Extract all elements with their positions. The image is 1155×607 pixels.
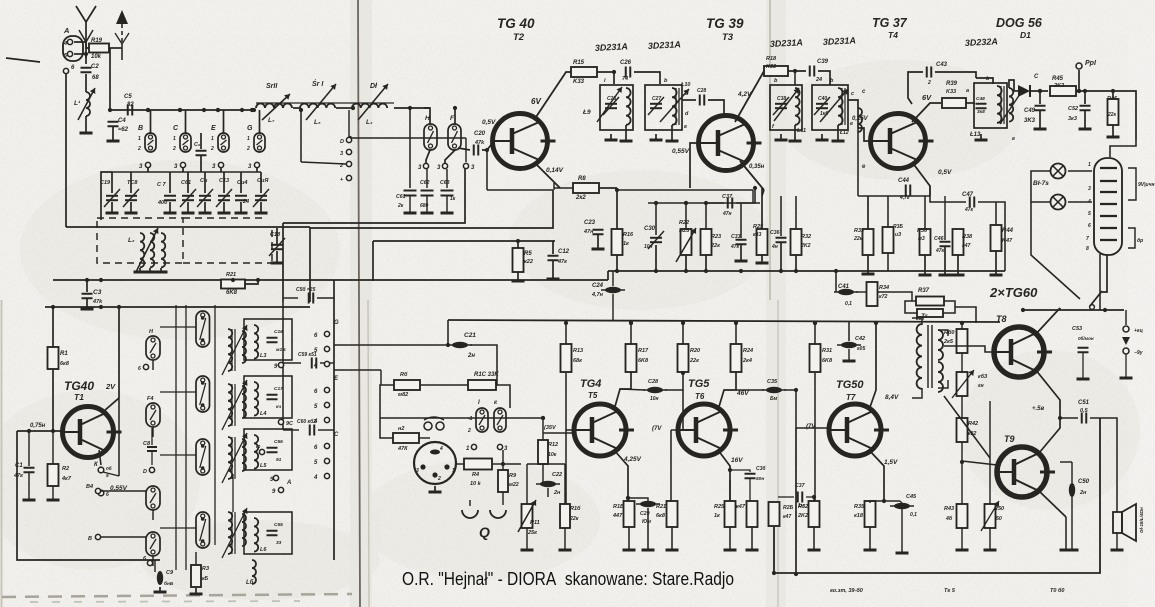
junction R17 rail [629,321,633,325]
junction R21 [256,278,260,282]
junction T5 col [629,321,633,325]
svg-text:B: B [138,125,143,132]
ground under R46 [1107,136,1120,139]
svg-text:3к3: 3к3 [1068,116,1077,122]
resistor R50 [985,504,996,528]
bottom scan smudge [2,594,352,597]
wire T4 base drop2 [857,128,859,196]
tube grid pin 1 [1100,167,1117,169]
junction R40 rail [960,321,964,325]
antenna 2 drop [121,24,123,42]
wire C11 top lead [204,172,206,193]
wire T2 emitter 0.14V diagonal [534,162,560,188]
coil L9 [626,88,631,125]
ground C62 [421,212,434,215]
svg-text:C24: C24 [592,283,604,289]
resistor R32m [791,229,802,255]
ground T9 emitter [1060,549,1073,552]
svg-text:TG4: TG4 [580,378,601,390]
svg-text:R3Б: R3Б [893,224,903,230]
junction C52 [1083,89,1087,93]
wire C42 down [848,349,850,360]
junction y310 a [1103,308,1107,312]
wire R36 top [924,196,926,229]
svg-text:R36: R36 [917,228,928,234]
svg-text:4,7н: 4,7н [591,292,604,298]
svg-text:C55: C55 [274,522,283,528]
svg-text:C40: C40 [818,96,827,102]
secondary coil L5b [242,439,246,471]
svg-text:4,7к: 4,7к [899,195,910,201]
svg-text:кч: кч [276,405,281,410]
wire D line [350,137,466,139]
wire row link 4 [160,527,196,529]
svg-text:м1Б: м1Б [276,347,286,353]
L2 adjust arrow [136,228,158,272]
bus y307 left [45,306,310,308]
tube lower bracket [1128,228,1135,248]
wire T6 collector to C35 [736,389,764,391]
transistor T3 (TG39) [699,116,762,171]
svg-text:г05: г05 [857,346,865,352]
capacitor C49 [1035,106,1046,111]
capacitor C50 [1069,483,1075,497]
wire C52 drop [1084,91,1086,104]
wire C21 right [470,345,497,385]
svg-text:DOG 56: DOG 56 [996,16,1043,30]
wire R23 top [705,203,707,229]
svg-text:C2: C2 [91,64,99,70]
svg-text:4б: 4б [945,515,953,522]
junction y271 e [739,269,743,273]
wire C1 gnd [28,473,30,499]
svg-text:A: A [63,26,69,35]
bus SrI to Dl [336,107,352,109]
ground C1 [23,499,36,502]
wire C61 down [409,196,411,212]
svg-text:бнБ: бнБ [164,580,174,587]
wire C50 tap [1060,461,1072,463]
ground under C7 [164,212,177,215]
wire riser lower [118,398,120,476]
wire T8 base lead [944,346,994,352]
svg-text:T8: T8 [996,314,1007,324]
capacitor C7 [164,196,176,201]
ground C42 [843,360,856,363]
wire L13 to diode [1009,80,1014,91]
coil L11 [795,88,800,125]
svg-text:50: 50 [996,516,1002,522]
wire C7 bottom lead [169,202,171,212]
capacitor C47 [970,197,975,208]
svg-text:D: D [143,469,147,475]
band switch contact P3 [196,439,210,475]
terminal 9 mid [278,362,283,367]
svg-text:TG50: TG50 [836,379,864,391]
svg-text:R13: R13 [573,348,583,354]
svg-text:C8: C8 [143,441,151,447]
svg-text:4​7н: 4​7н [722,211,732,217]
svg-text:T3: T3 [722,32,734,43]
svg-text:R42: R42 [968,421,978,427]
coil L1 [86,92,90,116]
secondary coil L4b [242,386,246,418]
ground batt [1120,377,1133,380]
wire T5 emitter down [614,450,628,503]
junction collector y307 [117,305,121,309]
wire F top [454,108,456,124]
wire R17 top [630,323,632,344]
terminal 6C [324,443,329,448]
main tuning bus [110,109,252,111]
capacitor C51 [1082,413,1087,424]
switch contact B [145,133,156,152]
wire C61 top lead [187,172,189,193]
ground C45 [896,552,909,555]
diode D1 (DOG56) [1014,85,1030,97]
svg-text:400: 400 [157,200,167,206]
wire C33 top [740,203,742,238]
svg-text:к18: к18 [854,513,864,519]
switch contact G [254,133,265,152]
svg-text:R31: R31 [822,348,832,354]
transformer Tr secondary upper [938,330,943,360]
junction y203 a [654,201,658,205]
wire C3 down [86,298,88,308]
wire Tr sec mid [938,380,948,388]
dashed gang top ext [183,217,265,219]
wire R33b top [867,196,869,229]
capacitor C24 [601,287,625,293]
wire T9 emitter diag [1039,491,1066,517]
resistor R13 [561,344,572,372]
svg-text:м82: м82 [398,392,408,398]
bus junction a [108,108,112,112]
resistor R8 [573,183,599,193]
wire C12 top [552,241,554,254]
svg-text:к​47: к​47 [736,504,746,510]
svg-text:3D231A: 3D231A [595,41,629,53]
trimmer capacitor C40 [814,97,830,115]
wire C59 left [283,362,301,364]
wire R16 down [616,255,618,271]
svg-text:10н: 10н [644,244,653,250]
wire resistor R27 down [751,527,753,549]
svg-text:C16: C16 [274,329,283,335]
svg-text:м3: м3 [918,236,925,242]
terminal 6 row1 [143,364,148,369]
svg-text:1: 1 [211,136,214,142]
svg-text:1н: 1н [798,503,804,509]
svg-text:R50: R50 [994,506,1004,512]
bus y271 [608,270,1005,272]
svg-text:L​4: L​4 [260,411,266,417]
terminal 4E [324,417,329,422]
connector A outline [63,36,83,61]
svg-text:C28: C28 [648,379,659,385]
capacitor C3 [82,294,93,299]
wire C37m right [736,188,755,203]
wire x373 drop [372,241,374,281]
capacitor C46 [940,242,951,247]
junction T8T9 out [1058,416,1062,420]
tube grid pin 7 [1100,239,1117,241]
svg-text:9С: 9С [286,421,294,427]
wire C13 bottom lead [223,202,225,212]
L4 adjust [222,380,247,430]
resistor R3 [191,565,201,587]
ground under R5 [512,280,525,283]
wire antenna mast to bus [85,54,87,64]
wire Tr prim top [912,318,922,325]
wire C33 down [740,245,742,260]
svg-text:3D231A: 3D231A [823,35,857,47]
svg-text:C56: C56 [274,439,283,445]
wire C6b [200,133,202,149]
terminal 5G [324,346,329,351]
svg-text:C52: C52 [1068,106,1078,112]
wire A pin5 junction [74,53,86,55]
svg-text:T9: T9 [1004,434,1015,444]
wire T8 collector diag [1035,308,1060,335]
power switch contacts [1090,291,1102,309]
L1 adjust arrow [78,88,95,120]
svg-text:Тг 5: Тг 5 [944,588,956,594]
junction base C1 [27,429,31,433]
R41 adjust [952,370,974,398]
ground L2 w3 [155,268,168,272]
wire R25a top [729,480,731,501]
wire speaker down [1116,533,1118,549]
resistor R7 [393,433,419,443]
svg-text:2: 2 [210,146,214,152]
wire C51 to speaker [1090,418,1117,505]
svg-text:47К: 47К [397,446,408,452]
oscillator coil L6 [228,512,232,554]
junction det a [1038,89,1042,93]
svg-text:4: 4 [1087,199,1091,205]
wire blockout2 drop [380,370,382,385]
resistor R11 pot [522,504,533,528]
wire C63 down [446,196,448,212]
wire T1 emitter to K [99,450,101,465]
svg-text:C​37: C​37 [722,194,733,200]
coil Sr II L7 [256,104,292,109]
svg-text:PpI: PpI [1085,60,1097,67]
ground C63 [441,212,454,215]
wire row link 2 [160,391,196,393]
wire C53 drop [1082,352,1084,378]
jack 1 stem [469,500,471,506]
svg-text:R25: R25 [714,504,725,510]
svg-text:Bł-7s: Bł-7s [1033,180,1049,187]
switch contact F [448,124,461,150]
svg-text:46V: 46V [736,390,749,397]
wire C62 down [426,196,428,212]
band switch contact S2 [146,403,160,427]
svg-text:C61: C61 [396,194,406,200]
capacitor C44 [906,185,911,196]
wire preamp y464 [527,463,565,465]
svg-text:R11: R11 [530,520,540,526]
band switch contact P4 [196,512,210,548]
terminal plus col [346,175,351,180]
wire C60 left [283,429,299,431]
wire C15 bottom lead [260,202,262,212]
wire T9 base diag [944,396,990,458]
wire C47 left [930,196,966,202]
junction R31 rail [813,321,817,325]
wire R15 to IF can1 [597,71,614,73]
wire C6b down [200,156,202,172]
wire R32m down [795,255,797,271]
battery terminal minus [1123,348,1129,354]
band switch contact P2 [196,376,210,412]
junction y203 b [684,201,688,205]
svg-text:6к8: 6к8 [60,361,70,367]
resistor R34 [867,282,878,306]
wire R7 left [380,418,393,438]
wire T2 base drop [486,150,488,190]
resistor R25 [757,229,768,255]
wire R14 down [564,528,566,549]
svg-text:1: 1 [452,468,455,474]
junction y271 c [654,269,658,273]
mid drop x334 [333,280,335,302]
junction y271 f [779,269,783,273]
svg-text:0,5V: 0,5V [938,169,952,176]
ground C29 [642,549,655,552]
wire R50 down [989,528,991,549]
transistor T1 (TG40) [63,407,122,458]
svg-text:3D231A: 3D231A [770,37,804,49]
transformer Tr secondary lower [938,362,943,392]
antenna 2 lower Y [115,33,129,44]
svg-text:D: D [340,139,344,145]
terminal K [98,467,104,473]
wire R32m top [795,196,797,229]
svg-text:C44: C44 [898,178,910,184]
wire R25 top [761,188,763,229]
svg-text:C18: C18 [270,232,281,238]
terminal left S4 [95,488,100,493]
svg-text:T6: T6 [695,392,705,401]
wire lamps left [1031,171,1050,202]
svg-text:K33: K33 [946,89,956,95]
wire R1 to base rail [52,369,54,431]
svg-text:кБ: кБ [202,576,209,582]
junction loop left [772,571,776,575]
svg-text:C3: C3 [93,289,102,296]
wire C24 top [612,271,614,286]
ground under R33b [862,273,875,276]
svg-text:4​7к: 4​7к [935,248,945,254]
svg-text:T5: T5 [588,391,598,400]
svg-text:4: 4 [313,363,318,369]
svg-text:Sr​II: Sr​II [266,83,278,90]
svg-text:9V​|ичн: 9V​|ичн [1138,182,1155,188]
switch contact K2 [494,408,506,432]
svg-text:R15: R15 [573,60,585,66]
svg-text:3к8: 3к8 [977,109,985,115]
svg-text:C45: C45 [906,494,917,500]
trimmer row rail [112,171,261,173]
secondary coil L3b [242,331,246,363]
svg-text:74: 74 [622,76,628,82]
wire T4 base coil [858,128,870,141]
svg-text:2: 2 [246,146,250,152]
svg-text:Cи​Я: Cи​Я [257,178,269,184]
wire C47 right [978,201,996,203]
wire emitter to R8 [554,187,573,189]
ground under C49 [1034,128,1047,131]
svg-text:Ł​10: Ł​10 [680,82,690,88]
resistor R9 [498,470,508,492]
SrI adjust [306,84,336,120]
coil Dl L14 [352,104,387,108]
svg-text:1: 1 [1088,162,1091,168]
svg-text:Q: Q [479,524,490,540]
ground under C61 [182,212,195,215]
wire R23 down [705,255,707,271]
svg-text:Lб: Lб [246,579,254,586]
svg-text:2: 2 [467,428,471,434]
svg-text:47k: 47k [92,299,103,305]
wire S4 drop [152,556,154,566]
svg-text:R1Б: R1Б [613,504,624,510]
terminal 5C [324,458,329,463]
svg-text:4​7к: 4​7к [730,244,740,250]
junction emitter g [882,499,886,503]
wire C28 to T6 base [665,390,683,430]
capacitor C53 [1078,348,1089,353]
wire tube circuit left [1031,202,1080,299]
svg-text:O.R. "Hejnał" - DIORA skanowa: O.R. "Hejnał" - DIORA skanowane: Stare.R… [402,568,734,589]
junction L8 left [299,108,303,112]
wire R46 down [1112,125,1114,136]
resistor R38 [953,229,964,255]
wire C58 left [283,297,298,299]
svg-text:C​36: C​36 [770,230,780,236]
wire R2 down [52,486,54,499]
wire S5 left [101,536,146,538]
left drop to switch block [282,223,284,302]
svg-text:C9: C9 [166,570,174,576]
svg-text:C1: C1 [15,463,23,469]
svg-text:10к: 10к [548,452,557,458]
wire tube bottom drop [1102,254,1107,292]
wire R24 top [735,323,737,344]
trimmer capacitor C30 [648,231,664,249]
wire T5 collector up [614,372,631,410]
dashed gang link [183,262,272,264]
ground under C11 [199,212,212,215]
wire L1 down [85,116,87,132]
wire R2 top [52,431,54,464]
coil L&#8203;5 [254,435,258,469]
resistor R19 [89,44,109,53]
svg-text:8,4V: 8,4V [885,394,899,401]
junction T5 emitter [626,496,630,500]
trimmer capacitor C61 [180,189,196,207]
svg-text:0,5: 0,5 [1080,408,1089,414]
secondary coil L6b [242,514,246,546]
wire C2 to L1 [85,74,87,92]
transistor T5 (TG4) [574,404,634,456]
wire batt2 [1125,354,1127,377]
capacitor C22 [536,481,560,487]
switch contact I [476,408,488,432]
